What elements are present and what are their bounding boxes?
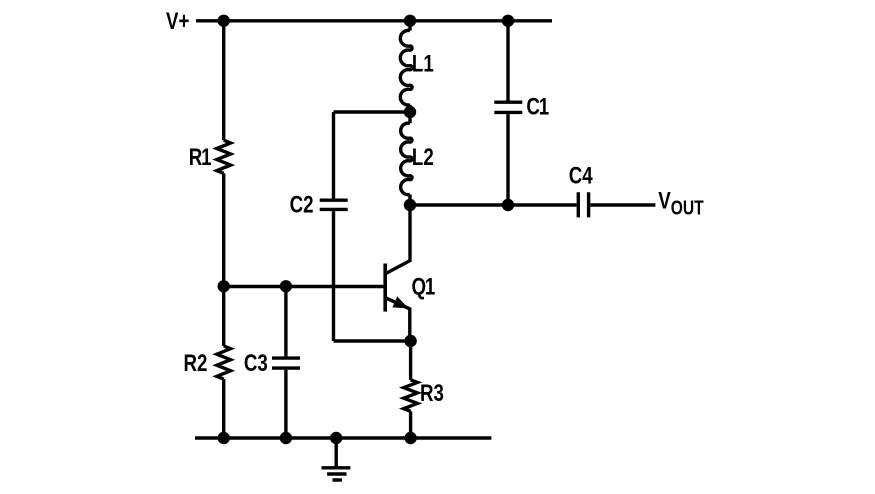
label C2 — [290, 191, 314, 218]
svg-text:R1: R1 — [189, 144, 212, 171]
inductor L1 — [400, 30, 412, 105]
ground — [322, 438, 351, 480]
label V+ — [166, 8, 189, 35]
capacitor C4 — [578, 192, 588, 217]
wire R3 bottom lead — [409, 411, 412, 438]
wire tap row — [334, 110, 411, 113]
node bottom-C3 — [280, 432, 292, 444]
label L1 — [412, 50, 434, 77]
wire C1 top lead — [506, 21, 509, 101]
wire feedback row — [334, 339, 411, 342]
node base-C3 — [280, 280, 292, 292]
capacitor C1 — [494, 102, 522, 112]
wire R3 top lead — [409, 341, 412, 380]
wire C2 top lead — [332, 112, 335, 199]
node L1-L2 tap — [404, 106, 416, 118]
node bottom-R3 — [404, 432, 416, 444]
wire C3 bottom lead — [284, 370, 287, 438]
transistor Q1 emitter — [386, 298, 410, 341]
capacitor C2 — [320, 200, 348, 209]
node top-L1 — [404, 15, 416, 27]
svg-text:C3: C3 — [244, 350, 268, 377]
svg-text:C4: C4 — [569, 162, 593, 189]
transistor Q1 base bar — [383, 264, 387, 312]
svg-text:VOUT: VOUT — [658, 187, 703, 219]
label C1 — [526, 93, 549, 120]
wire C3 top lead — [284, 286, 287, 356]
resistor R3 — [404, 380, 418, 412]
svg-text:L2: L2 — [412, 144, 434, 171]
node bottom-R2 — [218, 432, 230, 444]
wire R2 bottom lead — [222, 379, 225, 438]
wire C2 bottom lead — [332, 211, 335, 341]
wire output row — [410, 203, 577, 206]
wire L1-L2 link — [408, 105, 411, 124]
node L2-output — [404, 199, 416, 211]
capacitor C3 — [272, 358, 300, 368]
transistor Q1 emitter arrow — [392, 296, 408, 308]
wire top rail — [196, 19, 552, 22]
wire C1 bottom lead — [506, 114, 509, 205]
label R1 — [189, 144, 212, 171]
svg-text:R3: R3 — [420, 380, 444, 407]
transistor Q1 collector — [386, 205, 410, 273]
inductor L2 — [401, 123, 412, 195]
svg-text:R2: R2 — [184, 350, 208, 377]
node top-R1 — [218, 15, 230, 27]
wire L1 top stub — [408, 21, 411, 31]
wire L2 bottom stub — [408, 195, 411, 206]
label R3 — [420, 380, 444, 407]
node base-R1R2 — [218, 280, 230, 292]
label C3 — [244, 350, 268, 377]
svg-text:V+: V+ — [166, 8, 189, 35]
wire output lead — [590, 203, 655, 206]
wire base row — [224, 285, 384, 288]
wire R2 top lead — [222, 286, 225, 346]
wire R1 bottom lead — [222, 173, 225, 286]
label R2 — [184, 350, 208, 377]
node emitter — [404, 335, 416, 347]
node top-C1 — [502, 15, 514, 27]
svg-text:L1: L1 — [412, 50, 434, 77]
label C4 — [569, 162, 593, 189]
node C1-output — [502, 199, 514, 211]
svg-text:Q1: Q1 — [412, 274, 436, 301]
wire R1 top lead — [222, 21, 225, 140]
resistor R2 — [217, 346, 231, 379]
wire bottom rail — [195, 436, 491, 439]
label VOUT — [658, 187, 703, 219]
node bottom-ground — [330, 432, 342, 444]
svg-text:C2: C2 — [290, 191, 314, 218]
svg-text:C1: C1 — [526, 93, 549, 120]
label Q1 — [412, 274, 436, 301]
resistor R1 — [217, 140, 231, 173]
label L2 — [412, 144, 434, 171]
